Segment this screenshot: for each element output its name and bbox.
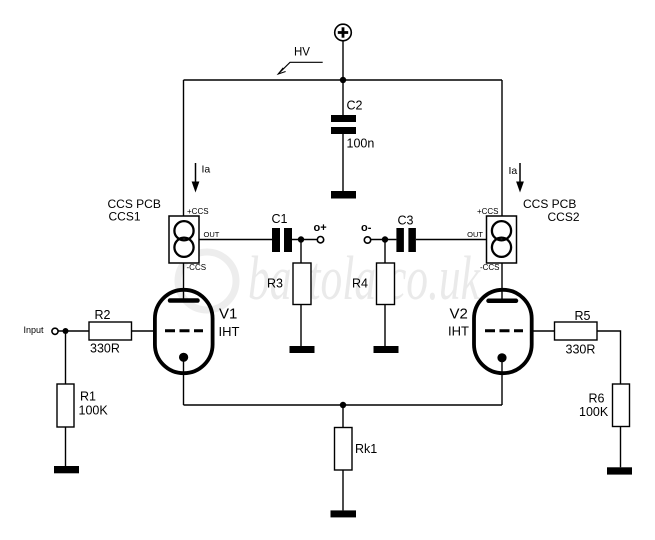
wire Rk1 top stem: [342, 405, 344, 428]
svg-text:-CCS: -CCS: [480, 263, 500, 272]
svg-text:CCS1: CCS1: [109, 210, 141, 224]
wire R1 bottom stem: [65, 427, 67, 466]
wire supply stem: [342, 41, 344, 80]
wire R5 to R6 corner: [597, 331, 621, 384]
HV net label with leader arrow: [278, 47, 323, 75]
svg-text:o-: o-: [361, 222, 372, 234]
wire C2 bottom stem: [342, 134, 344, 191]
svg-text:Ia: Ia: [202, 164, 211, 176]
svg-text:R3: R3: [267, 277, 283, 291]
node HV junction: [340, 77, 346, 83]
svg-text:+CCS: +CCS: [477, 207, 499, 216]
svg-text:100n: 100n: [347, 137, 375, 151]
resistor R2 330R: [89, 308, 132, 356]
wire C3 to CCS2 OUT: [416, 239, 487, 241]
wire left HV drop: [183, 80, 185, 216]
svg-text:330R: 330R: [90, 342, 120, 356]
resistor R4: [352, 263, 395, 305]
svg-text:OUT: OUT: [467, 230, 483, 239]
svg-text:IHT: IHT: [448, 324, 469, 339]
resistor R5 330R: [555, 309, 598, 357]
wire o- to C3: [371, 239, 397, 241]
capacitor C3: [396, 214, 416, 253]
resistor R1 100K: [57, 384, 108, 427]
svg-text:R5: R5: [575, 309, 591, 323]
terminal o+: [314, 222, 327, 243]
node output- junction: [382, 236, 388, 242]
ground below C2: [331, 191, 356, 199]
CCS PCB CCS1 block: [108, 197, 220, 272]
ground below R1: [54, 466, 79, 473]
svg-text:Input: Input: [24, 325, 45, 335]
svg-text:+CCS: +CCS: [187, 207, 209, 216]
svg-text:CCS PCB: CCS PCB: [523, 197, 576, 211]
wire R6 bottom stem: [620, 427, 622, 468]
node output+ junction: [298, 236, 304, 242]
svg-text:IHT: IHT: [219, 324, 240, 339]
svg-text:C3: C3: [398, 214, 414, 228]
svg-text:HV: HV: [294, 47, 310, 59]
Ia current arrow left: [192, 163, 211, 193]
svg-text:C2: C2: [347, 99, 363, 113]
wire R3 top stem: [300, 240, 302, 264]
capacitor C2 100n: [331, 99, 374, 151]
wire input to R2: [58, 330, 89, 332]
ground below Rk1: [331, 510, 357, 517]
triode V1 IHT: [155, 290, 240, 373]
wire right HV drop: [501, 80, 503, 216]
wire top HV bus: [184, 79, 503, 81]
wire C2 top stem: [342, 80, 344, 115]
wire R2 to V1 grid: [132, 330, 156, 332]
svg-text:Rk1: Rk1: [355, 442, 377, 456]
CCS PCB CCS2 block: [467, 197, 580, 272]
triode V2 IHT: [448, 290, 532, 373]
wire R4 top stem: [384, 240, 386, 264]
wire R4 bottom stem: [384, 305, 386, 347]
svg-text:R2: R2: [95, 308, 111, 322]
resistor R3: [267, 263, 311, 305]
node cathode junction: [340, 402, 346, 408]
ground below R6: [607, 467, 632, 474]
wire R1 top stem: [65, 331, 67, 384]
svg-text:100K: 100K: [79, 404, 109, 418]
ground below R4: [374, 346, 399, 353]
wire C1 to o+ node: [292, 239, 317, 241]
wire V2 cathode drop: [501, 358, 503, 405]
svg-text:R1: R1: [80, 390, 96, 404]
svg-text:OUT: OUT: [204, 230, 220, 239]
resistor R6 100K: [579, 384, 630, 427]
svg-text:CCS2: CCS2: [547, 210, 579, 224]
wire CCS1 OUT to C1: [199, 239, 272, 241]
terminal o-: [361, 222, 372, 243]
svg-text:V2: V2: [450, 306, 468, 323]
svg-text:R6: R6: [589, 392, 605, 406]
wire cathode bus: [184, 404, 503, 406]
wire CCS1 to V1 anode: [183, 263, 185, 301]
Ia current arrow right: [509, 163, 524, 193]
wire V2 grid to R5: [532, 330, 555, 332]
wire CCS2 to V2 anode: [501, 263, 503, 301]
resistor Rk1: [335, 428, 378, 471]
node input junction: [63, 328, 69, 334]
svg-text:C1: C1: [272, 212, 288, 226]
svg-text:330R: 330R: [566, 343, 596, 357]
ground below R3: [290, 346, 315, 353]
capacitor C1: [272, 212, 293, 252]
svg-text:-CCS: -CCS: [187, 263, 207, 272]
svg-text:V1: V1: [219, 306, 237, 323]
svg-text:100K: 100K: [579, 405, 609, 419]
wire Rk1 bottom stem: [342, 470, 344, 510]
svg-text:Ia: Ia: [509, 165, 518, 177]
wire R3 bottom stem: [300, 305, 302, 347]
terminal Input: [24, 325, 59, 335]
svg-text:R4: R4: [352, 277, 368, 291]
supply terminal + (HV source): [335, 24, 352, 41]
svg-text:o+: o+: [314, 222, 327, 234]
wire V1 cathode drop: [183, 357, 185, 405]
